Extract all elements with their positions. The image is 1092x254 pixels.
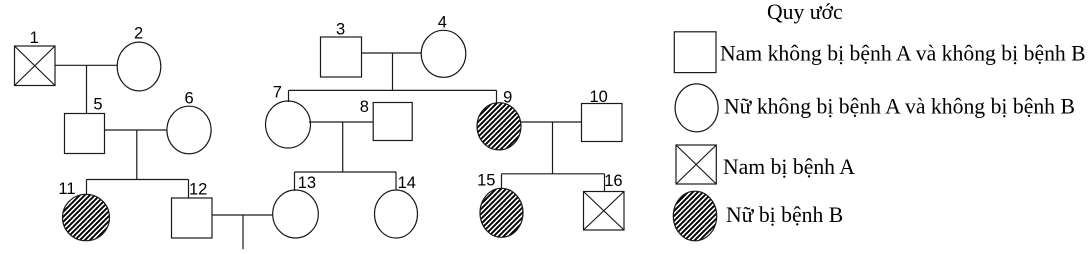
legend symbol: male with disease A (square with X) [676,145,716,184]
legend symbol: unaffected male square [674,32,716,73]
individual 6: female circle [167,106,211,154]
wire couple 5-6 [105,129,168,131]
individual 15: affected female hatched circle [480,188,523,237]
svg-text:11: 11 [58,180,75,198]
svg-text:6: 6 [185,89,194,107]
individual 8: male square [373,103,412,141]
svg-text:5: 5 [93,96,102,114]
individual 4: female circle [421,30,466,77]
wire couple 7-8 [309,121,373,123]
individual 12: male square [172,198,213,238]
individual 5: male square [65,114,105,154]
svg-text:8: 8 [360,98,369,116]
svg-text:16: 16 [604,172,622,190]
wire couple 9-10 [521,121,582,123]
svg-text:15: 15 [477,172,495,190]
wire drop to circle 13 [294,172,296,191]
individual 16: affected male square with X [584,192,625,231]
wire couple 3-4 [362,52,422,54]
svg-text:Nữ không bị bệnh A và không bị: Nữ không bị bệnh A và không bị bệnh B [724,95,1075,119]
svg-text:13: 13 [298,174,316,192]
individual 9: affected female hatched circle [477,103,521,150]
svg-text:Nam bị bệnh A: Nam bị bệnh A [723,155,855,179]
wire drop to square 16 [604,174,606,192]
wire drop from couple 7-8 [342,122,344,172]
svg-text:7: 7 [273,84,282,102]
wire drop to circle 11 [86,180,88,195]
wire drop to circle 15 [501,174,503,189]
svg-text:Nữ bị bệnh B: Nữ bị bệnh B [726,203,843,227]
individual 11: affected female hatched circle [63,194,110,240]
svg-text:1: 1 [30,29,39,47]
wire drop to square 12 [188,180,190,199]
individual 3: male square [321,37,362,77]
individual 14: female circle [375,190,418,238]
svg-text:Nam không bị bệnh A và không b: Nam không bị bệnh A và không bị bệnh B [720,42,1086,66]
individual 10: male square [582,104,623,142]
individual 2: female circle [117,42,161,91]
legend symbol: female with disease B (hatched circle) [673,191,716,241]
wire drop from couple 5-6 [136,130,138,180]
svg-text:14: 14 [398,174,416,192]
wire sibship line 15-16 [502,173,605,175]
svg-text:Quy ước: Quy ước [767,0,843,24]
svg-text:12: 12 [189,181,207,199]
wire drop to circle 14 [395,172,397,190]
svg-text:9: 9 [503,88,512,106]
svg-text:10: 10 [590,88,608,106]
svg-text:3: 3 [336,21,345,39]
individual 1: affected male square with X [15,46,56,86]
wire drop to circle 7 [288,90,290,102]
individual 7: female circle [266,101,311,148]
wire sibship line 13-14 [295,171,397,173]
wire drop to circle 9 [496,90,498,103]
wire drop from couple 9-10 [552,122,554,174]
wire sibship line 7-9 [289,89,497,91]
wire couple 1-2 [55,64,118,66]
wire drop from couple 3-4 [392,53,394,90]
wire offspring stub below couple 12-13 [242,215,244,249]
legend symbol: unaffected female circle [675,84,718,132]
wire couple 12-13 [212,214,273,216]
wire sibship line 11-12 [87,179,189,181]
svg-text:2: 2 [134,25,143,43]
svg-text:4: 4 [438,14,447,32]
individual 13: female circle [273,190,319,238]
wire drop from couple 1-2 to square 5 [86,65,88,113]
